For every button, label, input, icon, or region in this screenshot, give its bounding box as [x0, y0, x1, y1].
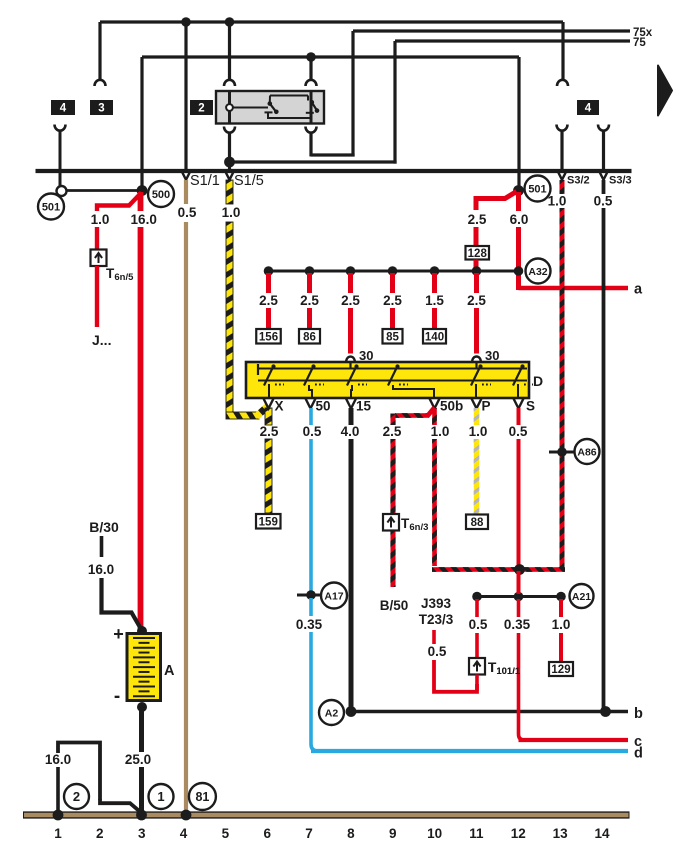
svg-text:2.5: 2.5 [300, 293, 319, 308]
svg-text:10: 10 [427, 826, 442, 841]
svg-text:156: 156 [259, 331, 278, 343]
fuse branch 156 at x=268.5 [264, 266, 274, 276]
wire blue 50 down [309, 439, 313, 592]
svg-text:6n/5: 6n/5 [114, 272, 134, 283]
wire: 75 drop to S1/5 node [393, 41, 396, 164]
svg-text:0.5: 0.5 [303, 424, 322, 439]
svg-text:c: c [634, 734, 642, 750]
wire black ground bridge [58, 743, 100, 801]
fuse branch 86 at x=309.5 [305, 266, 315, 276]
svg-text:1.0: 1.0 [222, 205, 241, 220]
svg-text:0.5: 0.5 [428, 644, 447, 659]
svg-text:1.0: 1.0 [548, 194, 567, 209]
svg-text:6.0: 6.0 [510, 212, 529, 227]
fuse box 129 [549, 662, 573, 676]
svg-text:75: 75 [633, 37, 646, 49]
switch contact at x=518 [513, 366, 523, 386]
connector arc below relay right pin [306, 127, 317, 133]
ground point circle 500 [148, 181, 174, 207]
wire: relay left pin through body [228, 91, 231, 124]
terminal 30 cup right [472, 357, 481, 362]
wire red 16.0 lower [138, 227, 144, 630]
ground dot 3 [136, 810, 147, 821]
wire red 2.5 elbow [476, 192, 517, 211]
svg-text:0.35: 0.35 [296, 617, 323, 632]
wire red T101 upper [475, 599, 479, 617]
switch contact at x=269 [264, 366, 274, 386]
relay switch 1 contact dot [274, 110, 279, 115]
node dot A21 right [556, 592, 566, 602]
wire black 15 down [349, 439, 354, 711]
terminal arrow S [514, 399, 524, 409]
fuse branch 140 at x=434.5 [430, 266, 440, 276]
wire blue below tap [309, 598, 313, 616]
wire black 25.0 upper [139, 709, 144, 752]
wire: S1/5 node to 75 drop [230, 160, 397, 163]
ground point circle 501 [38, 194, 64, 220]
wire brown upper stub [184, 180, 188, 204]
relay internal bottom link [268, 112, 311, 118]
wire black B30 stub [100, 536, 104, 557]
node row line [267, 270, 518, 273]
relay internal top link right leg [307, 96, 309, 101]
switch rail upper [258, 368, 527, 370]
open terminal circle 501 [57, 186, 67, 196]
svg-text:85: 85 [386, 331, 399, 343]
svg-text:2.5: 2.5 [467, 293, 486, 308]
svg-text:2.5: 2.5 [383, 424, 402, 439]
connector arc above relay right pin [306, 80, 317, 86]
wire black B30 down [102, 578, 142, 629]
svg-text:50b: 50b [440, 399, 463, 414]
svg-text:S1/5: S1/5 [234, 173, 264, 189]
wire red U bottom [434, 660, 477, 692]
relay 2 body [216, 91, 324, 124]
connector half upper S3 [557, 80, 568, 86]
wire: connector to S3/2 [560, 131, 563, 170]
svg-text:A32: A32 [528, 266, 547, 278]
wire red elbow diagonal to 50b [427, 408, 435, 417]
svg-text:4: 4 [585, 103, 592, 115]
connection circle A17 [321, 583, 347, 609]
wire red 1.0 to fuse symbol [95, 227, 99, 250]
svg-text:101/1: 101/1 [496, 666, 520, 677]
wire red T101 lower [475, 675, 479, 692]
wire red 1.0 elbow [97, 193, 142, 212]
connector arc below relay left pin [224, 127, 235, 133]
switch contact at x=309 [304, 366, 314, 386]
svg-text:1.0: 1.0 [552, 617, 571, 632]
svg-text:5: 5 [222, 826, 230, 841]
relay switch 2 contact dot [315, 108, 320, 113]
svg-text:0.5: 0.5 [178, 205, 197, 220]
terminal 30 cup left [346, 357, 355, 362]
svg-text:2: 2 [198, 103, 204, 115]
wire red 6.0 lower [516, 227, 521, 290]
plug label box 2 [190, 100, 213, 115]
relay switch 1 contact tick [265, 111, 273, 113]
wire blue to d-corner [311, 632, 318, 751]
relay internal top link left leg [269, 96, 271, 103]
svg-text:X: X [275, 399, 284, 414]
svg-text:J...: J... [92, 332, 111, 348]
fuse box 128 [466, 246, 490, 260]
ground dot 4 [181, 810, 192, 821]
svg-text:12: 12 [511, 826, 526, 841]
wire red below fuse 128 [474, 260, 479, 272]
svg-text:2.5: 2.5 [259, 293, 278, 308]
node dot b S3/3 [600, 706, 611, 717]
ground diagonal join [100, 799, 141, 813]
wire red S down [517, 439, 521, 594]
svg-text:159: 159 [259, 516, 278, 528]
wire red S below junction [517, 571, 521, 594]
svg-text:0.5: 0.5 [469, 617, 488, 632]
terminal arrow 15 [346, 399, 356, 409]
wire: rail 75 [395, 39, 630, 42]
wire: rail to relay output [142, 55, 519, 58]
svg-text:81: 81 [195, 790, 209, 804]
svg-text:S: S [526, 399, 535, 414]
connection circle A2 [319, 700, 344, 725]
fuse symbol T6n/5 [91, 250, 107, 267]
svg-text:4: 4 [60, 103, 67, 115]
node dot end of row [514, 266, 524, 276]
svg-text:3: 3 [98, 103, 104, 115]
svg-text:J393: J393 [421, 596, 452, 611]
relay switch 1 pivot [268, 101, 273, 106]
tap dot A86 [557, 447, 567, 457]
connection circle A32 [526, 259, 551, 284]
wire yellow-black elbow diagonal [257, 406, 269, 417]
terminal arrow S3/2 [557, 170, 567, 180]
svg-text:2.5: 2.5 [341, 293, 360, 308]
svg-text:A: A [164, 663, 175, 679]
svg-text:129: 129 [551, 664, 570, 676]
svg-text:-: - [114, 686, 120, 707]
wire red 6.0 upper [516, 192, 521, 211]
svg-text:a: a [634, 282, 643, 298]
wire: drop to S1/1 [184, 22, 187, 169]
svg-text:3: 3 [138, 826, 146, 841]
fuse symbol T6n/3 [383, 514, 399, 531]
plug label box 3 [90, 100, 113, 115]
wire red 1.0 below symbol [95, 266, 99, 327]
connector half lower S3/3 [598, 125, 609, 131]
svg-text:S3/2: S3/2 [567, 175, 590, 187]
relay internal feed line [233, 107, 268, 109]
wire: connector to S3/3 [602, 131, 605, 170]
node dot A21 left [472, 592, 482, 602]
wire black S3/3 upper stub [602, 180, 606, 194]
terminal arrow S3/3 [599, 170, 609, 180]
wire red S 0.35 upper [517, 599, 521, 617]
connector half top-left [95, 80, 106, 86]
svg-text:16.0: 16.0 [88, 562, 114, 577]
fuse branch terminal 30 at x=350.5 [346, 266, 356, 276]
node dot on rail 30 at relay drop [225, 17, 235, 27]
wire: top supply rail 30 [100, 20, 563, 23]
svg-text:B/30: B/30 [89, 519, 119, 535]
svg-text:2.5: 2.5 [260, 424, 279, 439]
wire: open terminal to node 500 [67, 189, 141, 192]
tap dot A17 [306, 590, 316, 600]
wire: left drop from rail 30 [98, 22, 101, 80]
connector half below box 4 [55, 125, 66, 131]
svg-text:6: 6 [263, 826, 271, 841]
wire red T101 mid [475, 633, 479, 658]
plug label box 4 (right) [577, 100, 599, 115]
ignition switch D body [246, 362, 529, 398]
svg-text:88: 88 [471, 517, 484, 529]
svg-text:T23/3: T23/3 [419, 612, 454, 627]
svg-text:14: 14 [594, 826, 610, 841]
battery negative dot [137, 702, 147, 712]
svg-text:2: 2 [73, 789, 80, 804]
switch feed 30 right [475, 362, 477, 369]
svg-text:25.0: 25.0 [125, 752, 151, 767]
terminal arrow 50b [430, 399, 440, 409]
svg-text:8: 8 [347, 826, 355, 841]
relay internal top link [270, 95, 308, 97]
connection circle A21 [570, 584, 594, 608]
svg-text:501: 501 [528, 183, 546, 195]
wire red 16.0 battery positive [138, 192, 144, 211]
continuation arrow [658, 66, 672, 116]
svg-text:1.0: 1.0 [91, 212, 110, 227]
fuse box 88 [466, 515, 488, 530]
wire: rail-57 drop to node 500 [140, 57, 143, 190]
relay switch 2 blade [312, 102, 317, 111]
wire red 129 branch [559, 599, 563, 617]
fuse box 159 [256, 514, 281, 529]
bottom ground bus brown [24, 813, 629, 817]
node dot on rail 30 at S1/1 drop [181, 17, 191, 27]
svg-text:P: P [482, 399, 491, 414]
switch feed 30 left [349, 362, 351, 369]
terminal arrow 50 [306, 399, 316, 409]
svg-text:2: 2 [96, 826, 104, 841]
fuse symbol T101/1 [469, 658, 485, 675]
connector half lower S3/2 [557, 125, 568, 131]
svg-text:+: + [113, 624, 124, 644]
svg-text:15: 15 [356, 399, 372, 414]
svg-text:A17: A17 [324, 590, 343, 602]
wire black ground left lower [56, 767, 60, 813]
svg-text:0.35: 0.35 [504, 617, 531, 632]
svg-text:A21: A21 [572, 591, 591, 603]
svg-text:50: 50 [316, 399, 331, 414]
connection circle A86 [575, 439, 600, 464]
wire: rail 75x [353, 29, 630, 32]
wire: 75x drop to relay elbow [351, 31, 354, 157]
wire: elbow relay output to 75x [311, 153, 355, 156]
svg-text:1: 1 [54, 826, 62, 841]
wire black 25.0 lower [139, 767, 144, 813]
switch contact at x=476 [471, 366, 481, 386]
svg-text:2.5: 2.5 [468, 212, 487, 227]
tap marker A17 [297, 594, 325, 597]
wire: relay right pin up to rail 57 [309, 57, 312, 81]
wire red J393 upper [432, 630, 436, 644]
svg-text:16.0: 16.0 [131, 212, 157, 227]
svg-text:128: 128 [468, 248, 488, 260]
wire red line c [519, 738, 629, 742]
ground circle 81 [189, 783, 216, 810]
node dot A21 mid [514, 592, 524, 602]
wire: rail-57 drop to node 501 right [517, 57, 520, 190]
terminal arrow X [264, 399, 274, 409]
svg-text:B/50: B/50 [380, 598, 409, 613]
terminal arrow S1/1 [181, 170, 191, 180]
svg-text:501: 501 [42, 201, 60, 213]
switch rail lower [258, 380, 527, 382]
wire red S 0.35 lower [519, 633, 525, 740]
wire red 129 lower [559, 633, 563, 662]
svg-text:86: 86 [303, 331, 316, 343]
ground dot 1 [53, 810, 64, 821]
svg-text:1: 1 [157, 789, 164, 804]
fuse branch terminal 30 at x=476.5 [472, 266, 482, 276]
A21 row line [477, 595, 561, 598]
svg-text:1.0: 1.0 [431, 424, 450, 439]
node dot relay top on rail 57 [306, 52, 316, 62]
wire black S3/3 down [602, 208, 606, 711]
svg-text:0.5: 0.5 [509, 424, 528, 439]
wire: bus to open terminal [59, 171, 62, 186]
relay switch 2 pivot [310, 100, 315, 105]
switch rail left terminus [257, 364, 259, 375]
terminal arrow S1/5 [225, 170, 235, 180]
relay switch 1 blade [270, 104, 277, 113]
tap marker A86 [549, 451, 576, 454]
svg-text:140: 140 [425, 331, 444, 343]
bottom ground bus outline [23, 811, 630, 818]
battery plates [133, 637, 155, 639]
svg-text:7: 7 [305, 826, 313, 841]
svg-text:9: 9 [389, 826, 397, 841]
connector arc above relay left pin [224, 80, 235, 86]
wire: relay left pin below to S1/5 node [228, 133, 231, 172]
wire blue stub 50 [309, 408, 313, 425]
wire: drop from rail 30 to relay [228, 22, 231, 81]
wire brown S1/1 to ground 81 [184, 222, 188, 812]
relay switch 2 contact tick [306, 112, 314, 114]
svg-text:500: 500 [152, 189, 170, 201]
wire blue line d [311, 749, 628, 753]
wire red to a [519, 286, 629, 290]
relay terminal circle [226, 104, 233, 111]
terminal arrow P [472, 399, 482, 409]
svg-text:b: b [634, 706, 643, 722]
node dot 500 [137, 185, 148, 196]
svg-text:16.0: 16.0 [45, 752, 71, 767]
wire red stub S [517, 408, 521, 425]
switch contact at x=352 [347, 366, 357, 386]
battery A body [127, 634, 161, 701]
svg-text:13: 13 [553, 826, 569, 841]
svg-text:A2: A2 [325, 707, 339, 719]
wire black line b [351, 710, 628, 713]
ground circle 1 [149, 784, 174, 809]
wire red 2.5 to fuse 128 [474, 227, 479, 246]
svg-text:4.0: 4.0 [341, 424, 360, 439]
main bus bar [36, 169, 632, 173]
switch contact at x=393 [388, 366, 398, 386]
node dot 501 right [513, 185, 524, 196]
wire black stub 15 [349, 408, 354, 425]
wire: relay right pin through body [310, 91, 313, 124]
wire: relay right pin below to elbow [309, 133, 312, 157]
svg-text:2.5: 2.5 [383, 293, 402, 308]
ground circle 2 [64, 784, 89, 809]
junction dot S x red-black [514, 564, 525, 575]
svg-text:1.5: 1.5 [425, 293, 444, 308]
battery positive dot [137, 626, 147, 636]
svg-text:S3/3: S3/3 [609, 175, 632, 187]
svg-text:S1/1: S1/1 [190, 173, 220, 189]
wire: connector 4 to main bus [59, 131, 62, 192]
ground point circle 501 right [525, 176, 551, 202]
svg-text:6n/3: 6n/3 [409, 522, 428, 533]
fuse branch 85 at x=392.5 [388, 266, 398, 276]
svg-text:D: D [533, 373, 543, 389]
svg-text:11: 11 [469, 826, 484, 841]
plug label box 4 (left) [51, 100, 75, 115]
svg-text:0.5: 0.5 [594, 194, 613, 209]
svg-text:A86: A86 [577, 446, 596, 458]
node dot S1/5 junction [224, 157, 235, 168]
svg-text:1.0: 1.0 [469, 424, 488, 439]
svg-text:4: 4 [180, 826, 188, 841]
node dot A2 [346, 706, 357, 717]
wire: right drop from rail 30 [561, 22, 564, 80]
